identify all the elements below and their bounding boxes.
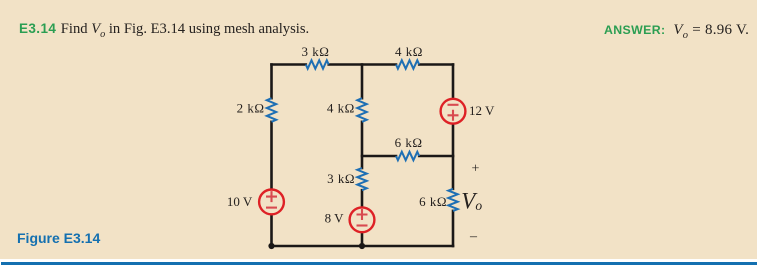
svg-text:3 kΩ: 3 kΩ [302,44,330,59]
resistor 2 kOhm (left vertical) [267,98,276,122]
svg-text:6 kΩ: 6 kΩ [419,194,447,209]
wire right branch lower (right 6k resistor to bottom-right corner) [452,211,455,246]
resistor 6 kOhm (branch horizontal) [396,152,419,160]
wire left branch upper (corner down to 2k resistor) [270,65,273,99]
wire middle branch upper (top node down to 4k resistor) [361,65,364,99]
svg-text:12 V: 12 V [469,103,495,118]
resistor 3 kOhm (middle vertical) [357,168,366,190]
resistor 4 kOhm (middle vertical) [357,98,366,122]
wire middle branch (4k resistor down through 6k branch node to 3k resistor) [361,122,364,168]
wire bottom segment [272,245,454,248]
junction dot bottom-middle node [359,243,365,249]
junction dot bottom-left node [268,243,274,249]
wire right branch upper (top-right corner down to 12V source) [452,65,455,98]
svg-text:4 kΩ: 4 kΩ [327,100,355,115]
voltage source 12 V (right branch, minus on top, plus below) [441,99,466,124]
wire left branch middle (2k resistor down to 10V source) [270,122,273,189]
wire 6k branch right (6k resistor to right branch node) [419,155,453,158]
voltage source 8 V (middle branch, plus on top, minus below) [350,207,375,232]
wire top-left segment (top-left corner to 3k resistor) [272,63,306,66]
answer line [604,22,749,41]
wire right branch middle (12V source down through 6k-branch node to right 6k resistor) [452,125,455,189]
blue bottom rule [1,262,757,265]
resistor 6 kOhm (right vertical, output) [448,189,457,211]
svg-text:Vo: Vo [461,189,482,214]
svg-text:+: + [472,162,480,177]
wire middle branch lower (8V source to bottom-middle junction) [361,233,364,246]
svg-text:–: – [469,229,478,244]
voltage source 10 V (left branch, plus on top, minus below) [259,190,284,215]
wire 6k branch (middle node to 6k resistor) [362,155,396,158]
exercise number E3.14 and problem statement [19,21,759,40]
svg-text:10 V: 10 V [227,194,253,209]
svg-text:6 kΩ: 6 kΩ [395,135,423,150]
svg-text:3 kΩ: 3 kΩ [327,171,355,186]
figure caption Figure E3.14 [17,230,100,246]
svg-text:2 kΩ: 2 kΩ [237,100,265,115]
wire top-middle segment (3k resistor to 4k resistor, through top node) [329,63,396,66]
wire top-right segment (4k resistor to top-right corner) [419,63,453,66]
svg-text:8 V: 8 V [325,210,345,225]
wire left branch lower (10V source down to bottom-left junction) [270,216,273,247]
resistor 3 kOhm (top left horizontal) [306,60,329,68]
svg-text:4 kΩ: 4 kΩ [395,44,423,59]
wire middle branch (3k resistor down to 8V source) [361,190,364,206]
resistor 4 kOhm (top right horizontal) [396,60,419,68]
